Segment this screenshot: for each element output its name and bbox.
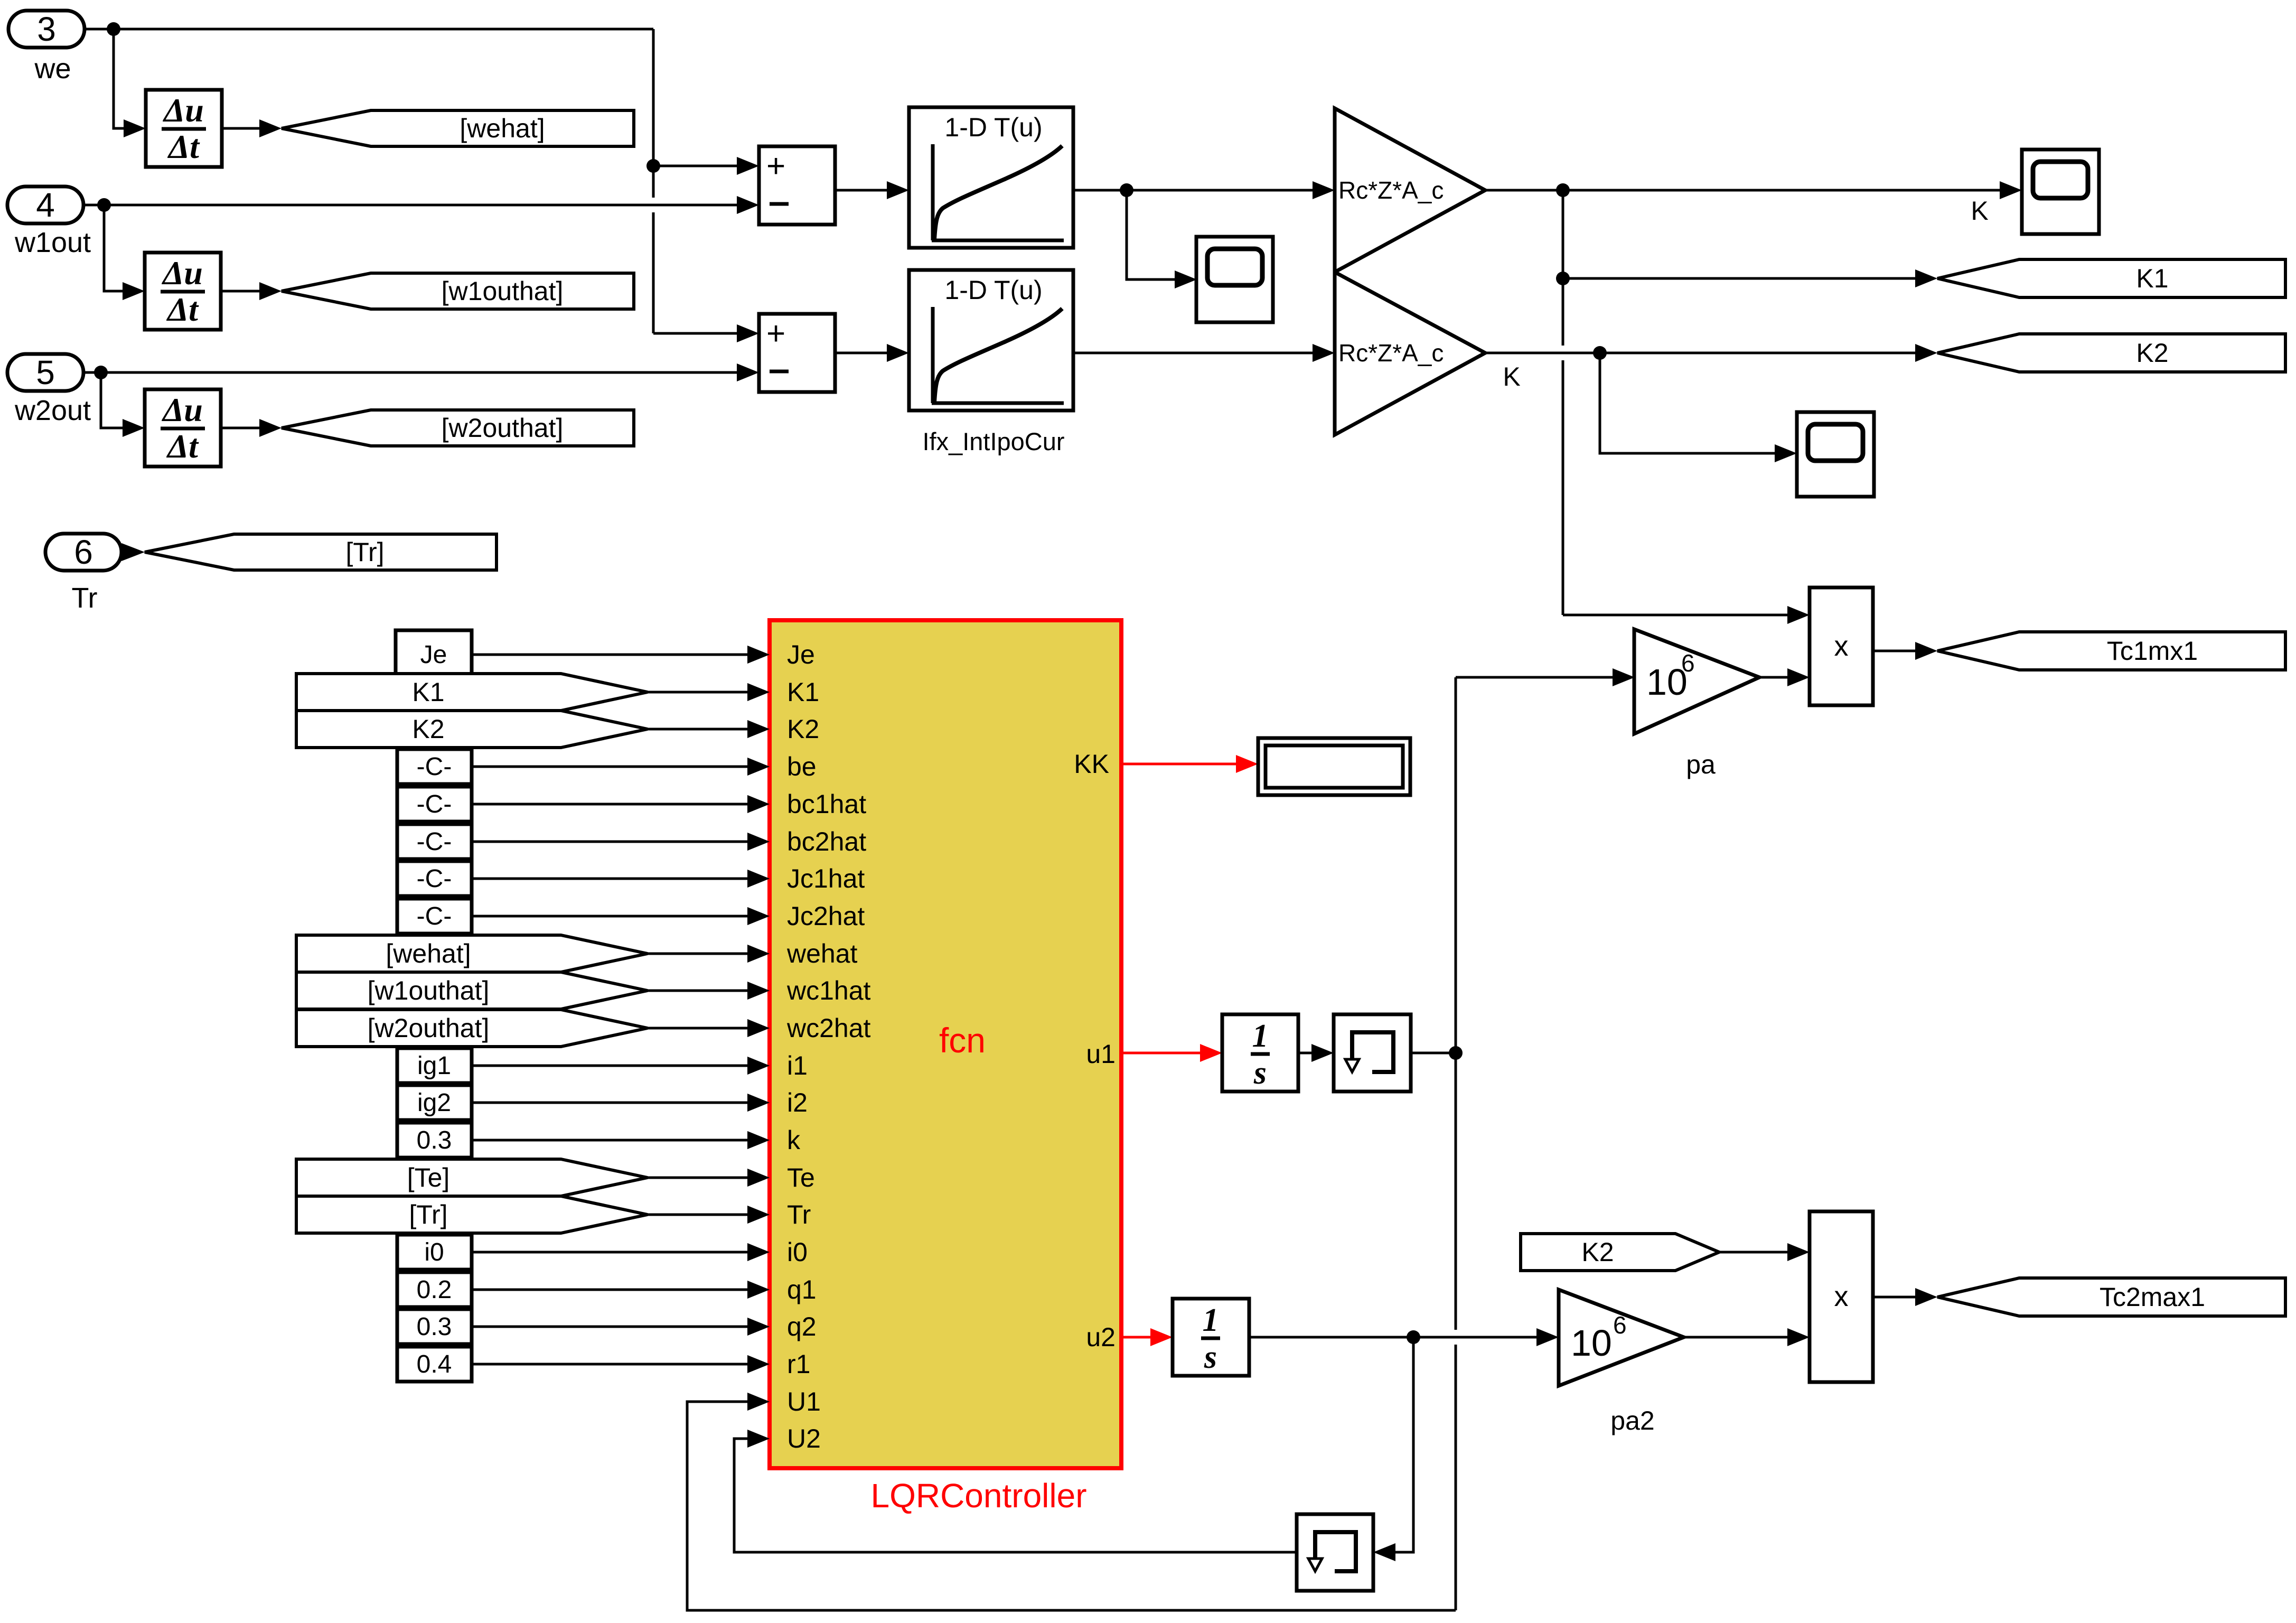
LQR input port k	[747, 1131, 770, 1149]
inport 4 (w1out)	[7, 186, 83, 223]
svg-text:Tr: Tr	[72, 582, 98, 614]
wire port5 branch down to derivative3	[101, 372, 123, 428]
svg-text:[w2outhat]: [w2outhat]	[442, 413, 564, 443]
LQR input port wc1hat	[747, 982, 770, 1000]
from [w1outhat]	[296, 972, 648, 1009]
svg-text:Rc*Z*A_c: Rc*Z*A_c	[1338, 339, 1444, 367]
junction u2	[1407, 1330, 1420, 1344]
lookup table block 1-D T(u) upper	[909, 107, 1073, 248]
derivative block Derivative we	[146, 90, 222, 167]
svg-text:-C-: -C-	[417, 790, 452, 818]
goto K2	[1937, 334, 2285, 372]
junction gain1 out	[1556, 183, 1570, 197]
wire -C- #2 to LQR	[472, 803, 747, 806]
wire fromK2 to LQR	[648, 728, 747, 731]
LQR input port i1	[747, 1057, 770, 1075]
junction port4	[97, 198, 111, 212]
LQR input port q1	[747, 1281, 770, 1299]
svg-text:k: k	[787, 1125, 801, 1155]
wire memory2 to U2 input	[734, 1439, 1297, 1552]
constant -C- #3	[397, 824, 472, 859]
LQR input port Tr	[747, 1206, 770, 1224]
wire port5 to sum2 minus	[83, 371, 737, 374]
svg-text:K2: K2	[2136, 338, 2168, 368]
wire port3 vertical to sum inputs	[652, 29, 655, 198]
derivative block Derivative w2out	[145, 389, 221, 467]
svg-text:w1out: w1out	[14, 227, 91, 258]
goto Tc1mx1	[1937, 632, 2285, 670]
svg-text:-C-: -C-	[417, 828, 452, 856]
svg-text:1: 1	[1252, 1018, 1269, 1054]
wire fromK1 to LQR	[648, 691, 747, 694]
wire vertical from gain1 out down to product1	[1562, 190, 1564, 346]
wire port4 branch down to derivative2	[104, 205, 123, 291]
from [Tr]	[296, 1196, 648, 1233]
wire ig1 to LQR	[472, 1065, 747, 1067]
wire 0.2 to LQR q1	[472, 1289, 747, 1291]
LQR input port i0	[747, 1243, 770, 1261]
from K2	[296, 711, 648, 748]
wire lookup2 to gain2	[1073, 352, 1313, 355]
wire U1 feedback bottom loop	[687, 1402, 1456, 1610]
wire product1 to goto Tc1mx1	[1873, 650, 1915, 652]
wire lookup1 to gain1	[1073, 189, 1313, 192]
wire derivative1 to goto wehat	[222, 127, 260, 130]
svg-text:K2: K2	[787, 714, 819, 744]
gain block Rc*Z*A_c upper	[1335, 108, 1485, 272]
svg-text:wc2hat: wc2hat	[786, 1013, 871, 1043]
svg-text:K2: K2	[1581, 1237, 1614, 1267]
svg-text:q1: q1	[787, 1275, 817, 1304]
constant ig2	[397, 1085, 472, 1120]
constant -C- #5	[397, 899, 472, 934]
svg-text:fcn: fcn	[939, 1021, 986, 1060]
constant 0.2 (q1)	[397, 1272, 472, 1307]
svg-text:Jc2hat: Jc2hat	[787, 901, 865, 931]
MATLAB Function block LQRController	[770, 620, 1121, 1468]
svg-text:s: s	[1253, 1055, 1267, 1091]
svg-text:[wehat]: [wehat]	[460, 114, 545, 143]
product block X lower	[1810, 1211, 1873, 1382]
wire u1 loop vertical to pa and U1 feedback	[1455, 677, 1457, 1330]
svg-text:0.4: 0.4	[417, 1350, 452, 1378]
wire product1 top input elbow	[1563, 614, 1787, 617]
LQR input port bc2hat	[747, 833, 770, 851]
junction memory1 output	[1449, 1046, 1463, 1060]
constant 0.4 (r1)	[397, 1347, 472, 1382]
svg-text:[w2outhat]: [w2outhat]	[368, 1013, 490, 1043]
svg-text:-C-: -C-	[417, 865, 452, 893]
svg-text:K1: K1	[412, 677, 444, 707]
svg-text:pa2: pa2	[1610, 1406, 1654, 1435]
wire branch down to scope2	[1600, 353, 1775, 453]
wire integrator1 to memory1	[1298, 1052, 1311, 1055]
svg-text:ig1: ig1	[417, 1052, 451, 1080]
from [w2outhat]	[296, 1010, 648, 1047]
svg-text:[Te]: [Te]	[407, 1163, 450, 1192]
svg-text:6: 6	[1681, 649, 1695, 677]
wire u1 to integrator1 (red)	[1121, 1052, 1202, 1055]
svg-text:i0: i0	[424, 1238, 444, 1266]
svg-text:be: be	[787, 752, 817, 781]
wire port4 to sum1 minus	[83, 204, 737, 207]
wire -C- #3 to LQR	[472, 841, 747, 843]
svg-text:i0: i0	[787, 1237, 808, 1267]
wire from Tr to LQR	[648, 1214, 747, 1216]
scope Scope3 top right	[2022, 150, 2099, 234]
gain block pa 10^6	[1634, 629, 1759, 734]
svg-text:u2: u2	[1086, 1322, 1116, 1352]
memory block Memory1	[1334, 1014, 1411, 1092]
svg-text:Jc1hat: Jc1hat	[787, 864, 865, 893]
gain block Rc*Z*A_c lower	[1335, 272, 1485, 435]
svg-text:K2: K2	[412, 714, 444, 744]
wire from wehat to LQR	[648, 953, 747, 955]
scope Scope1	[1196, 237, 1273, 322]
svg-text:we: we	[34, 53, 71, 85]
svg-text:5: 5	[36, 353, 55, 391]
sum block Sum1	[759, 146, 835, 225]
derivative block Derivative w1out	[145, 253, 221, 330]
goto Tc2max1	[1937, 1278, 2285, 1316]
LQR input port i2	[747, 1094, 770, 1112]
display block Display	[1258, 738, 1410, 795]
LQR input port K1	[747, 683, 770, 701]
svg-text:Tr: Tr	[787, 1200, 811, 1229]
LQR input port q2	[747, 1318, 770, 1336]
svg-text:0.3: 0.3	[417, 1126, 452, 1154]
wire product2 to goto Tc2max1	[1873, 1296, 1915, 1299]
svg-text:U2: U2	[787, 1424, 821, 1453]
junction port5	[94, 366, 108, 379]
LQR input port Te	[747, 1169, 770, 1187]
inport 6 (Tr)	[45, 534, 121, 571]
product block X upper	[1810, 587, 1873, 705]
junction sum1 plus branch	[646, 159, 660, 173]
scope Scope2	[1797, 412, 1874, 497]
svg-text:0.3: 0.3	[417, 1313, 452, 1341]
junction lookup1 output	[1120, 183, 1133, 197]
wire 0.3 to LQR k	[472, 1139, 747, 1142]
from K1	[296, 674, 648, 711]
integrator block 1/s upper	[1222, 1014, 1298, 1092]
wire integrator2 to pa2 with junction	[1249, 1336, 1536, 1339]
svg-text:K: K	[1503, 362, 1520, 391]
svg-text:K1: K1	[787, 677, 819, 707]
junction gain2 out	[1593, 346, 1607, 360]
svg-text:Je: Je	[787, 640, 815, 669]
gain block pa2 10^6	[1559, 1290, 1684, 1386]
svg-text:u1: u1	[1086, 1039, 1116, 1069]
goto [w2outhat]	[282, 410, 634, 446]
svg-text:Je: Je	[420, 641, 447, 669]
wire port3 to junction and sum1 elbow	[85, 28, 653, 31]
constant ig1	[397, 1048, 472, 1083]
svg-text:i2: i2	[787, 1088, 808, 1117]
LQR input port wehat	[747, 945, 770, 963]
LQR input port r1	[747, 1355, 770, 1373]
svg-text:r1: r1	[787, 1349, 810, 1379]
wire 0.3 to LQR q2	[472, 1326, 747, 1328]
svg-text:i1: i1	[787, 1051, 808, 1080]
wire to sum2 plus	[653, 332, 737, 335]
LQR input port Jc1hat	[747, 870, 770, 888]
LQR input port be	[747, 758, 770, 776]
integrator block 1/s lower	[1173, 1299, 1249, 1376]
from [wehat]	[296, 935, 648, 972]
svg-text:-C-: -C-	[417, 902, 452, 930]
wire u2 branch down to memory2	[1395, 1337, 1413, 1552]
lookup table block Ifx_IntIpoCur lower	[909, 270, 1073, 411]
constant Je	[396, 630, 472, 679]
from [Te]	[296, 1159, 648, 1196]
wire from Te to LQR	[648, 1177, 747, 1179]
svg-text:[w1outhat]: [w1outhat]	[442, 276, 564, 306]
svg-text:wc1hat: wc1hat	[786, 976, 871, 1005]
wire ig2 to LQR	[472, 1102, 747, 1104]
LQR input port Je	[747, 646, 770, 664]
svg-text:Δt: Δt	[166, 427, 199, 465]
svg-text:Δt: Δt	[167, 128, 200, 165]
svg-text:+: +	[766, 148, 785, 184]
svg-text:1-D T(u): 1-D T(u)	[944, 113, 1042, 142]
svg-text:wehat: wehat	[786, 939, 858, 968]
svg-text:x: x	[1834, 1281, 1849, 1312]
memory block Memory2	[1297, 1514, 1373, 1591]
svg-text:Rc*Z*A_c: Rc*Z*A_c	[1338, 176, 1444, 204]
wire port6 to goto Tr	[121, 543, 145, 561]
svg-text:1-D T(u): 1-D T(u)	[944, 275, 1042, 305]
wire branch down to scope1	[1127, 190, 1175, 279]
constant 0.3 (q2)	[397, 1309, 472, 1344]
svg-text:pa: pa	[1686, 750, 1716, 779]
svg-text:ig2: ig2	[417, 1089, 451, 1117]
wire derivative3 to goto w2outhat	[222, 427, 260, 430]
svg-text:0.2: 0.2	[417, 1276, 452, 1304]
wire sum2 to lookup2	[835, 352, 887, 355]
constant -C- #1	[397, 749, 472, 784]
wire KK to display (red)	[1121, 763, 1238, 766]
svg-text:1: 1	[1203, 1302, 1219, 1338]
wire to sum1 plus	[653, 165, 737, 167]
LQR input port K2	[747, 720, 770, 738]
svg-text:[wehat]: [wehat]	[386, 939, 471, 968]
svg-text:[Tr]: [Tr]	[409, 1200, 447, 1229]
constant -C- #4	[397, 861, 472, 896]
wire -C- #4 to LQR	[472, 878, 747, 880]
inport 3 (we)	[8, 11, 85, 48]
svg-text:s: s	[1204, 1339, 1217, 1375]
LQR input port wc2hat	[747, 1019, 770, 1037]
svg-text:bc1hat: bc1hat	[787, 789, 866, 819]
svg-text:6: 6	[1613, 1311, 1627, 1339]
svg-text:KK: KK	[1074, 749, 1109, 779]
svg-text:K: K	[1971, 196, 1988, 226]
svg-text:[Tr]: [Tr]	[345, 537, 384, 567]
wire i0 to LQR	[472, 1251, 747, 1254]
wire 0.4 to LQR r1	[472, 1363, 747, 1366]
svg-text:10: 10	[1571, 1322, 1612, 1364]
LQR input port U2	[747, 1430, 770, 1448]
svg-text:Tc1mx1: Tc1mx1	[2107, 636, 2198, 666]
wire sum1 to lookup1	[835, 189, 887, 192]
wire -C- #5 to LQR	[472, 915, 747, 918]
svg-text:[w1outhat]: [w1outhat]	[368, 976, 490, 1005]
wire Je to LQR	[472, 654, 747, 656]
wire memory1 to U1 vertical	[1411, 1052, 1456, 1055]
svg-text:Tc2max1: Tc2max1	[2100, 1282, 2205, 1312]
svg-text:4: 4	[36, 186, 55, 224]
wire u2 to integrator2 (red)	[1121, 1336, 1152, 1339]
LQR input port Jc2hat	[747, 907, 770, 925]
svg-text:-C-: -C-	[417, 753, 452, 781]
wire gain2 output to goto K2	[1485, 352, 1915, 355]
inport 5 (w2out)	[7, 354, 83, 391]
goto [Tr]	[145, 534, 496, 570]
wire from w2outhat to LQR	[648, 1027, 747, 1030]
svg-text:Te: Te	[787, 1163, 815, 1192]
svg-text:K1: K1	[2136, 264, 2168, 293]
constant -C- #2	[397, 787, 472, 822]
goto [w1outhat]	[282, 273, 634, 309]
svg-text:U1: U1	[787, 1387, 821, 1416]
LQR input port U1	[747, 1393, 770, 1411]
wire to goto K1	[1563, 277, 1915, 280]
svg-text:3: 3	[37, 10, 56, 48]
svg-text:x: x	[1834, 630, 1849, 662]
svg-text:q2: q2	[787, 1312, 817, 1341]
wire pa to product1	[1760, 676, 1787, 679]
svg-text:bc2hat: bc2hat	[787, 827, 866, 856]
junction port3	[107, 22, 120, 36]
svg-text:Δu: Δu	[161, 391, 203, 428]
svg-text:w2out: w2out	[14, 395, 91, 426]
constant i0	[397, 1235, 472, 1270]
svg-text:Δt: Δt	[166, 291, 199, 328]
wire derivative2 to goto w1outhat	[222, 290, 260, 293]
wire gain1 output to scope3	[1485, 189, 2000, 192]
svg-text:Δu: Δu	[162, 91, 204, 129]
sum block Sum2	[759, 314, 835, 392]
goto K1	[1937, 259, 2285, 297]
wire from w1outhat to LQR	[648, 990, 747, 992]
wire pa2 to product2	[1684, 1336, 1787, 1339]
svg-text:Ifx_IntIpoCur: Ifx_IntIpoCur	[922, 427, 1064, 455]
constant 0.3 (k)	[397, 1123, 472, 1158]
wire port3 branch down to derivative1	[114, 29, 124, 128]
svg-text:+: +	[766, 315, 785, 352]
LQR input port bc1hat	[747, 795, 770, 813]
wire -C- #1 to LQR	[472, 766, 747, 768]
goto [wehat]	[282, 110, 634, 146]
from K2 bottom	[1521, 1234, 1719, 1271]
wire fromK2b to product2	[1719, 1251, 1787, 1254]
junction K1 branch	[1556, 272, 1570, 285]
svg-text:6: 6	[74, 533, 93, 571]
svg-text:Δu: Δu	[161, 254, 203, 292]
svg-text:LQRController: LQRController	[870, 1477, 1086, 1515]
